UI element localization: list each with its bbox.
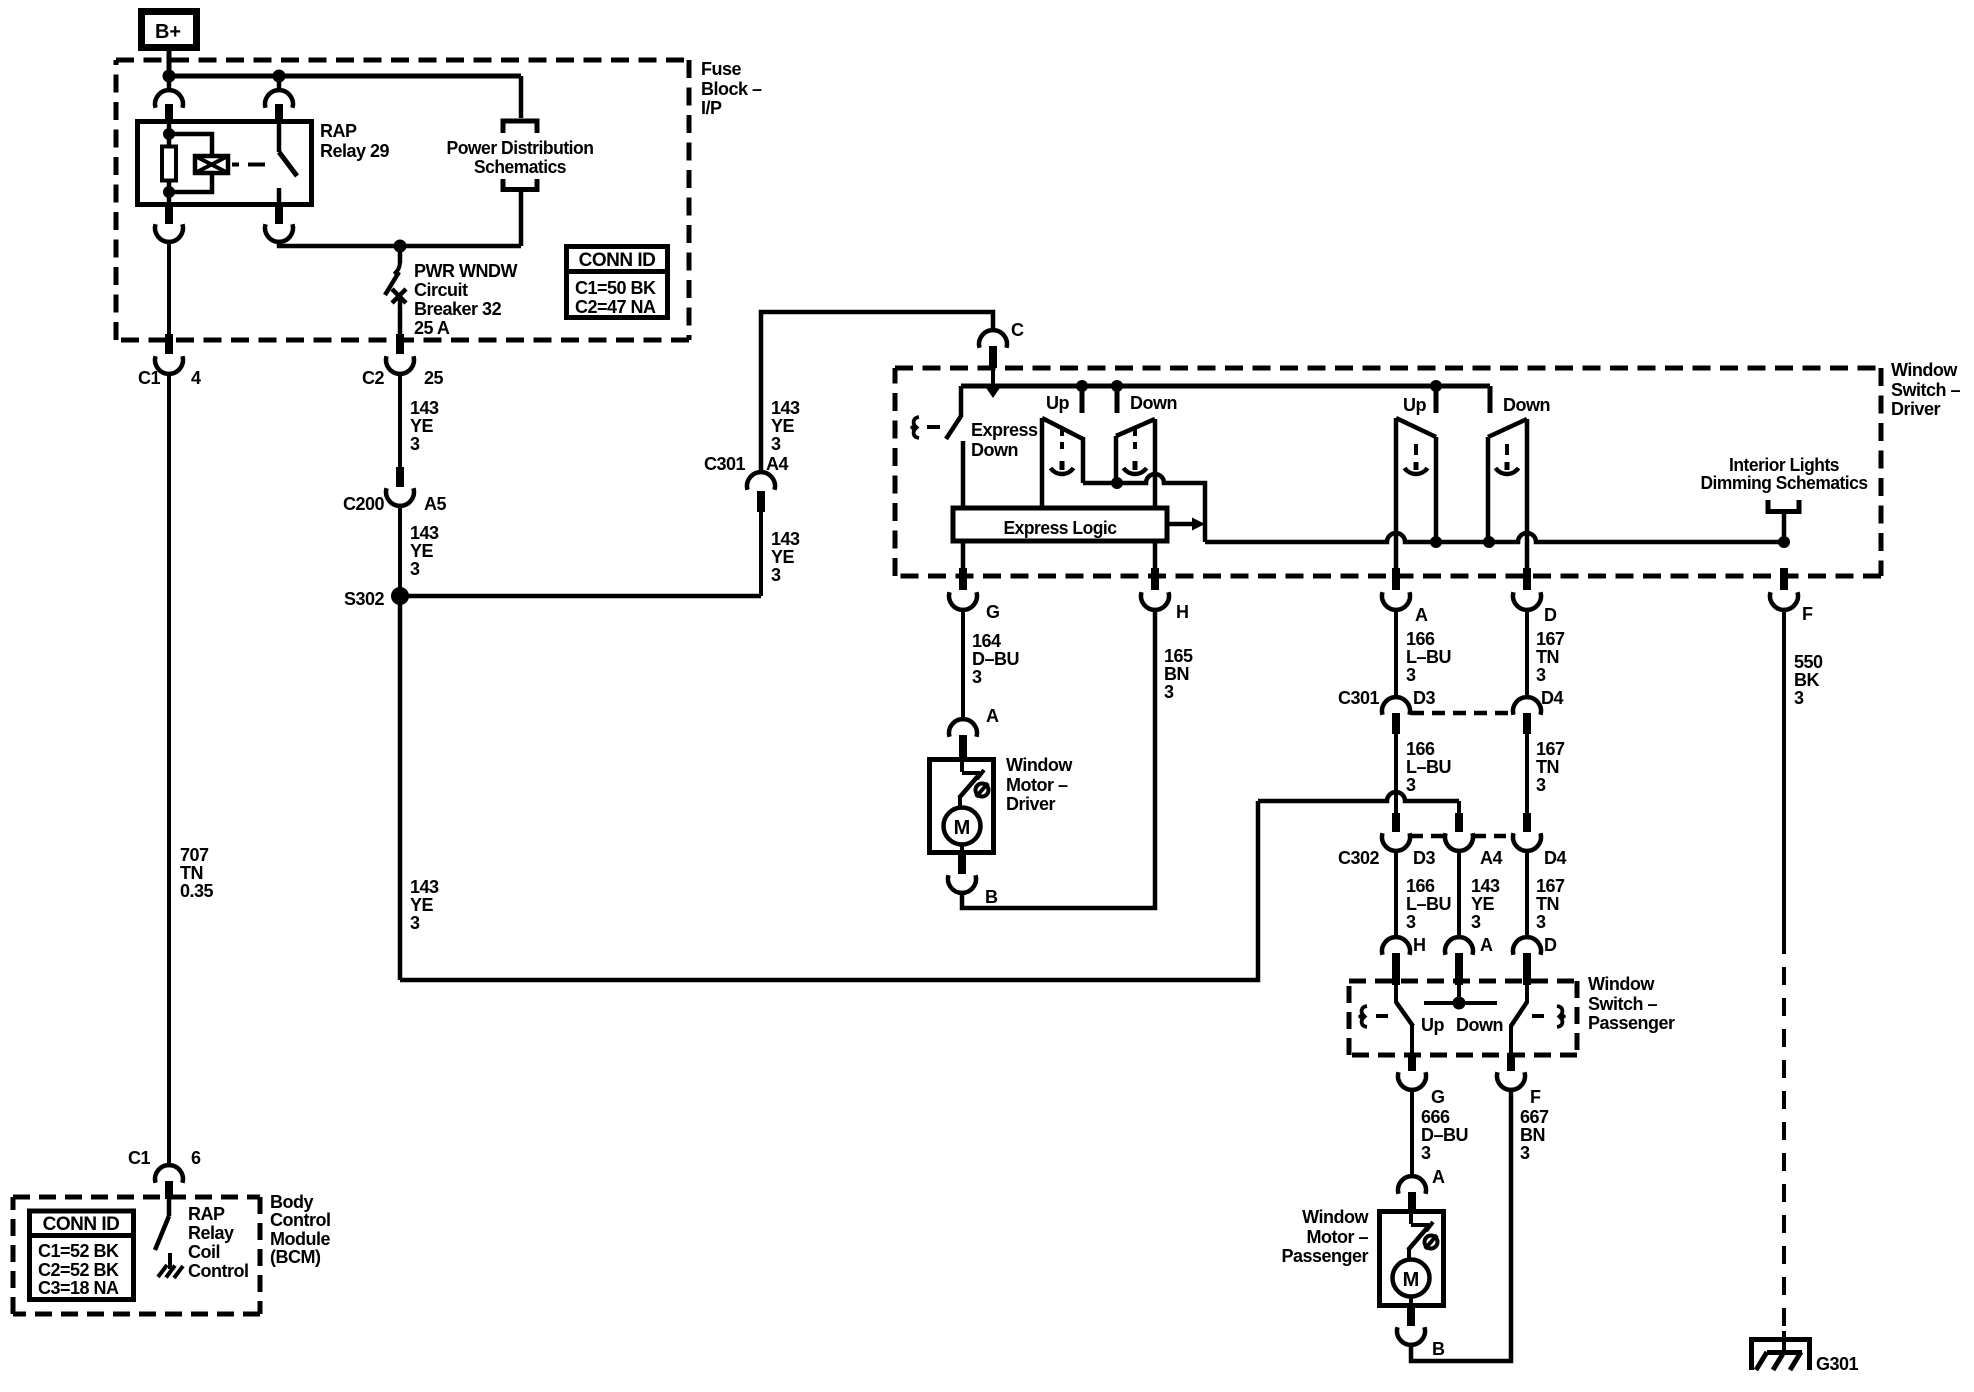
connector B passenger motor: [1397, 1307, 1445, 1359]
svg-text:YE: YE: [1471, 894, 1495, 914]
wire label 143 YE 3: [410, 398, 439, 454]
svg-text:C: C: [1011, 320, 1024, 340]
svg-text:Window: Window: [1006, 755, 1073, 775]
svg-text:YE: YE: [410, 541, 434, 561]
wire label 143 YE 3 below C302: [1471, 876, 1500, 932]
body control module dashed border: [13, 1197, 260, 1314]
svg-text:L–BU: L–BU: [1406, 647, 1451, 667]
svg-text:Control: Control: [270, 1210, 330, 1230]
label RAP Relay 29: [320, 121, 390, 161]
svg-text:YE: YE: [771, 416, 795, 436]
svg-text:143: 143: [410, 877, 439, 897]
svg-text:TN: TN: [1536, 647, 1559, 667]
svg-text:C1: C1: [128, 1148, 150, 1168]
svg-text:A: A: [1432, 1167, 1445, 1187]
relay switch lower contact: [277, 188, 282, 207]
svg-text:YE: YE: [410, 895, 434, 915]
svg-text:C1: C1: [138, 368, 160, 388]
svg-text:D–BU: D–BU: [972, 649, 1019, 669]
svg-text:D: D: [1544, 605, 1557, 625]
wire S302 down to passenger feed: [398, 596, 403, 980]
wire B+ to fuse block bus: [167, 50, 172, 78]
svg-text:Motor –: Motor –: [1307, 1227, 1369, 1247]
svg-text:Block –: Block –: [701, 79, 762, 99]
svg-text:3: 3: [972, 667, 982, 687]
switch passenger-down wiper: [1488, 419, 1527, 568]
resistor inside relay: [162, 147, 176, 181]
wire label 167 TN 3 below C302: [1536, 876, 1565, 932]
svg-text:Passenger: Passenger: [1588, 1013, 1675, 1033]
connector C200 pin A5: [343, 467, 447, 514]
svg-text:A: A: [1480, 935, 1493, 955]
svg-text:3: 3: [771, 565, 781, 585]
switch driver-down actuator glyph: [1124, 429, 1147, 474]
passenger actuator dash right: [1532, 1014, 1544, 1018]
svg-text:Switch –: Switch –: [1891, 380, 1961, 400]
svg-text:Window: Window: [1302, 1207, 1369, 1227]
svg-text:3: 3: [771, 434, 781, 454]
motor M passenger: [1393, 1260, 1430, 1297]
wire motor to box bottom passenger: [1409, 1296, 1413, 1307]
svg-text:C2: C2: [362, 368, 384, 388]
svg-text:Motor –: Motor –: [1006, 775, 1068, 795]
svg-text:Up: Up: [1421, 1015, 1444, 1035]
svg-text:165: 165: [1164, 646, 1193, 666]
connector G driver switch: [949, 543, 1000, 622]
svg-text:550: 550: [1794, 652, 1823, 672]
connector F passenger switch: [1497, 1053, 1541, 1107]
wire into A driver motor: [961, 609, 965, 720]
svg-text:TN: TN: [1536, 894, 1559, 914]
svg-text:C1=52 BK: C1=52 BK: [38, 1241, 119, 1261]
wire label 166 L-BU 3 above C301: [1406, 629, 1451, 685]
passenger switch common bar: [1424, 985, 1497, 1010]
junction at relay coil feed: [163, 70, 176, 83]
svg-text:C301: C301: [704, 454, 746, 474]
svg-text:G: G: [986, 602, 1000, 622]
switch driver-down wiper: [1116, 419, 1155, 568]
svg-text:143: 143: [410, 523, 439, 543]
passenger switch down blade: [1511, 985, 1527, 1053]
express down actuator dash: [927, 425, 940, 429]
svg-text:166: 166: [1406, 629, 1435, 649]
svg-text:G301: G301: [1816, 1354, 1859, 1374]
window motor driver box: [930, 760, 994, 853]
relay coil symbol box with X: [195, 156, 228, 173]
relay switch arm: [277, 121, 282, 152]
connector H driver switch: [1141, 568, 1189, 622]
wire S302 to C301 riser: [400, 594, 761, 599]
wire motor to box bottom: [960, 844, 964, 855]
connector C1 BCM pin 6: [128, 1148, 201, 1199]
svg-text:Down: Down: [1456, 1015, 1503, 1035]
switch passenger-up fixed contact stub: [1434, 386, 1439, 413]
svg-text:(BCM): (BCM): [270, 1247, 321, 1267]
wire express down branch: [959, 386, 964, 417]
wire label 167 TN 3 below C301: [1536, 739, 1565, 795]
wire label 164 D-BU 3: [972, 631, 1019, 687]
switch driver-up wiper: [1042, 418, 1083, 508]
label Power Distribution Schematics: [447, 138, 594, 177]
label RAP Relay Coil Control: [188, 1204, 248, 1281]
switch driver-down fixed contact stub: [1115, 386, 1120, 413]
junction breaker feed: [394, 240, 407, 253]
junction passenger-up wiper output: [1430, 536, 1442, 548]
label Window Switch Passenger: [1588, 974, 1675, 1033]
wire 666 D-BU to passenger motor: [1410, 1089, 1414, 1177]
svg-text:Down: Down: [1503, 395, 1550, 415]
svg-text:3: 3: [1421, 1143, 1431, 1163]
relay coil branch wire: [167, 121, 172, 146]
wire 166 L-BU C301 to C302: [1394, 734, 1398, 813]
express down actuator bracket: [912, 417, 919, 438]
wire express down to logic: [961, 441, 966, 508]
connector A passenger switch: [1445, 935, 1493, 985]
wire 667 BN motor B to F: [1411, 1089, 1511, 1361]
battery feed B+ terminal: [142, 12, 197, 48]
wire bus to relay coil pin: [167, 76, 172, 91]
label Up Down passenger switch: [1421, 1015, 1503, 1035]
wire label 143 YE 3 below C301: [771, 529, 800, 585]
express down switch blade: [946, 416, 961, 439]
svg-text:D4: D4: [1544, 848, 1566, 868]
svg-text:L–BU: L–BU: [1406, 894, 1451, 914]
switch passenger-up actuator glyph: [1405, 444, 1428, 474]
connector pin relay coil top: [155, 90, 183, 121]
wire C pin into switch with arrow: [987, 368, 1000, 398]
svg-text:L–BU: L–BU: [1406, 757, 1451, 777]
svg-text:D: D: [1544, 935, 1557, 955]
label Window Motor Driver: [1006, 755, 1073, 814]
window motor passenger box: [1380, 1212, 1444, 1306]
svg-text:H: H: [1413, 935, 1426, 955]
off-page symbol Power Distribution bottom half: [503, 179, 537, 190]
switch passenger-down fixed contact from bus corner: [1488, 386, 1493, 413]
RAP Relay 29 box: [138, 122, 312, 205]
wire 550 BK to ground solid part: [1782, 609, 1786, 936]
svg-text:I/P: I/P: [701, 98, 722, 118]
express logic output arrow: [1169, 518, 1205, 531]
svg-text:YE: YE: [771, 547, 795, 567]
connector D driver switch: [1513, 568, 1557, 625]
svg-text:Power Distribution: Power Distribution: [447, 138, 594, 158]
svg-text:M: M: [954, 817, 971, 839]
wire 167 TN to C301: [1525, 609, 1529, 698]
wire 143 YE C302 to switch A: [1457, 850, 1461, 938]
svg-text:B: B: [985, 887, 998, 907]
svg-text:Express: Express: [971, 420, 1038, 440]
label Fuse Block I/P: [701, 59, 762, 118]
svg-text:Module: Module: [270, 1229, 330, 1249]
svg-text:A5: A5: [424, 494, 446, 514]
fuse block I/P dashed border: [116, 60, 689, 340]
wire C301 riser to switch C pin: [761, 312, 993, 473]
connector C301 pin A4 riser: [704, 454, 789, 596]
RAP relay coil control switch: [155, 1199, 170, 1269]
connector C302 pin D4: [1513, 813, 1566, 868]
window switch passenger dashed border: [1349, 981, 1577, 1055]
wire 550 BK dashed part: [1782, 936, 1786, 1337]
switch driver-up fixed contact stub: [1080, 386, 1085, 413]
svg-text:143: 143: [771, 398, 800, 418]
wire 165 BN motor B to H: [962, 609, 1155, 908]
circuit breaker 32 symbol: [385, 246, 406, 334]
wire 167 TN C302 to switch D: [1525, 850, 1529, 938]
svg-text:Express Logic: Express Logic: [1004, 518, 1117, 538]
svg-text:666: 666: [1421, 1107, 1450, 1127]
connector C301 pin D4: [1513, 688, 1563, 734]
svg-text:D3: D3: [1413, 848, 1435, 868]
connector H passenger switch: [1382, 935, 1426, 985]
connector A passenger motor: [1398, 1167, 1445, 1210]
wire 143 YE long run to passenger switch: [400, 801, 1258, 980]
CONN ID table BCM: [27, 1211, 136, 1300]
svg-text:Driver: Driver: [1006, 794, 1056, 814]
svg-text:Schematics: Schematics: [474, 157, 566, 177]
express logic box: [953, 508, 1167, 541]
svg-text:F: F: [1530, 1087, 1541, 1107]
switch passenger-up wiper: [1396, 418, 1436, 568]
wire bus to relay switch pin: [277, 76, 282, 91]
wire 166 L-BU C302 to switch H: [1394, 850, 1398, 938]
svg-text:YE: YE: [410, 416, 434, 436]
junction passenger-down wiper output: [1483, 536, 1495, 548]
svg-text:Breaker 32: Breaker 32: [414, 299, 502, 319]
svg-text:Circuit: Circuit: [414, 280, 468, 300]
svg-text:C2=52 BK: C2=52 BK: [38, 1260, 119, 1280]
svg-text:A4: A4: [766, 454, 788, 474]
svg-text:RAP: RAP: [188, 1204, 225, 1224]
svg-text:3: 3: [1536, 775, 1546, 795]
svg-text:6: 6: [191, 1148, 201, 1168]
svg-text:3: 3: [1536, 665, 1546, 685]
svg-text:TN: TN: [1536, 757, 1559, 777]
switch passenger-down actuator glyph: [1496, 444, 1519, 474]
svg-text:3: 3: [1471, 912, 1481, 932]
wire internal B+ bus of driver switch: [961, 384, 1490, 389]
connector pin relay switch top: [265, 90, 293, 121]
svg-text:C200: C200: [343, 494, 385, 514]
svg-text:Relay 29: Relay 29: [320, 141, 390, 161]
wire 166 L-BU to C301: [1394, 609, 1398, 698]
svg-text:3: 3: [410, 913, 420, 933]
svg-text:143: 143: [410, 398, 439, 418]
svg-text:Control: Control: [188, 1261, 248, 1281]
svg-text:3: 3: [1406, 775, 1416, 795]
wire label 707 TN 0.35: [180, 845, 214, 901]
svg-text:3: 3: [410, 434, 420, 454]
junction driver up contact: [1076, 380, 1088, 392]
connector C1 fuse block pin 4: [138, 334, 201, 388]
label Window Switch Driver: [1891, 360, 1961, 419]
connector C301 pin D3: [1338, 688, 1436, 734]
svg-text:M: M: [1403, 1269, 1420, 1291]
svg-text:Interior Lights: Interior Lights: [1729, 455, 1839, 475]
svg-text:Down: Down: [1130, 393, 1177, 413]
wire resistor bottom: [167, 181, 172, 207]
svg-text:3: 3: [1406, 665, 1416, 685]
switch driver-up actuator glyph: [1051, 429, 1074, 474]
passenger actuator dash left: [1376, 1014, 1388, 1018]
junction passenger up contact: [1430, 380, 1442, 392]
svg-text:Up: Up: [1403, 395, 1426, 415]
connector C301 dashed link: [1411, 711, 1511, 716]
wire label 166 L-BU 3 below C301: [1406, 739, 1451, 795]
passenger actuator bracket left: [1360, 1006, 1367, 1027]
svg-text:Relay: Relay: [188, 1223, 234, 1243]
svg-text:C2=47 NA: C2=47 NA: [575, 297, 656, 317]
motor M driver: [944, 808, 981, 845]
wire label 143 YE 3 above C301: [771, 398, 800, 454]
connector G passenger switch: [1398, 1053, 1445, 1107]
svg-text:25 A: 25 A: [414, 318, 450, 338]
svg-text:25: 25: [424, 368, 444, 388]
svg-text:3: 3: [1406, 912, 1416, 932]
connector F driver switch: [1770, 568, 1813, 624]
wire interior lights tap: [1782, 511, 1787, 542]
svg-text:Body: Body: [270, 1192, 313, 1212]
svg-text:167: 167: [1536, 876, 1565, 896]
wire label 167 TN 3 above C301: [1536, 629, 1565, 685]
off-page symbol Power Distribution top half: [503, 121, 537, 133]
ground symbol BCM internal: [158, 1265, 183, 1278]
connector pin relay switch bottom: [265, 207, 293, 242]
svg-text:3: 3: [1794, 688, 1804, 708]
svg-text:RAP: RAP: [320, 121, 357, 141]
connector D passenger switch: [1513, 935, 1557, 985]
svg-text:Coil: Coil: [188, 1242, 220, 1262]
junction driver-down wiper to output: [1111, 477, 1123, 489]
CONN ID table fuse block: [564, 247, 670, 318]
svg-text:Switch –: Switch –: [1588, 994, 1658, 1014]
svg-text:143: 143: [1471, 876, 1500, 896]
wire 167 TN C301 to C302: [1525, 734, 1529, 813]
wire label 143 YE 3: [410, 877, 439, 933]
junction driver down contact: [1111, 380, 1123, 392]
svg-text:Window: Window: [1891, 360, 1958, 380]
svg-text:3: 3: [1164, 682, 1174, 702]
svg-text:TN: TN: [180, 863, 203, 883]
svg-text:Fuse: Fuse: [701, 59, 742, 79]
wire 143 YE C200 to S302: [398, 505, 402, 596]
wire power distribution drop: [519, 76, 524, 118]
wire driver switch output bus with hop: [1083, 474, 1205, 542]
svg-text:CONN ID: CONN ID: [579, 250, 656, 271]
passenger motor internal breaker: [1408, 1214, 1438, 1260]
junction interior lights tap: [1778, 536, 1790, 548]
wire label 550 BK 3: [1794, 652, 1823, 708]
svg-text:A: A: [1415, 605, 1428, 625]
svg-text:3: 3: [410, 559, 420, 579]
ground G301: [1752, 1331, 1859, 1374]
svg-text:PWR WNDW: PWR WNDW: [414, 261, 517, 281]
passenger switch up blade: [1396, 985, 1413, 1053]
svg-text:C301: C301: [1338, 688, 1380, 708]
wire relay switch output to breaker node: [279, 241, 521, 246]
svg-text:CONN ID: CONN ID: [43, 1214, 120, 1235]
svg-text:D3: D3: [1413, 688, 1435, 708]
connector pin relay coil bottom: [155, 207, 183, 242]
connector A driver motor: [949, 706, 999, 757]
svg-text:BN: BN: [1520, 1125, 1545, 1145]
junction relay coil bottom: [163, 186, 175, 198]
wire label 165 BN 3: [1164, 646, 1193, 702]
svg-text:B: B: [1432, 1339, 1445, 1359]
svg-text:Down: Down: [971, 440, 1018, 460]
off-page symbol interior lights: [1768, 500, 1799, 512]
label Window Motor Passenger: [1281, 1207, 1369, 1266]
wire 143 YE breaker to C200: [398, 373, 402, 467]
svg-text:D4: D4: [1541, 688, 1563, 708]
junction relay coil top: [163, 128, 175, 140]
connector C302 pin D3: [1338, 813, 1436, 868]
wire coil parallel branch top: [169, 134, 212, 156]
svg-text:A4: A4: [1480, 848, 1502, 868]
svg-text:G: G: [1431, 1087, 1445, 1107]
connector A driver switch: [1382, 568, 1428, 625]
label Body Control Module BCM: [270, 1192, 330, 1267]
svg-text:C1=50 BK: C1=50 BK: [575, 278, 656, 298]
svg-text:166: 166: [1406, 876, 1435, 896]
window switch driver dashed border: [895, 368, 1881, 576]
passenger actuator bracket right: [1557, 1006, 1564, 1027]
wire B+ bus inside fuse block: [169, 74, 521, 79]
svg-text:D–BU: D–BU: [1421, 1125, 1468, 1145]
junction at relay switch feed: [273, 70, 286, 83]
svg-text:BK: BK: [1794, 670, 1819, 690]
svg-text:164: 164: [972, 631, 1001, 651]
wire label 166 L-BU 3 below C302: [1406, 876, 1451, 932]
wire label 143 YE 3: [410, 523, 439, 579]
relay actuator dashed link: [232, 163, 265, 167]
svg-text:667: 667: [1520, 1107, 1549, 1127]
svg-text:167: 167: [1536, 629, 1565, 649]
wire coil parallel branch bottom: [169, 173, 212, 192]
svg-text:BN: BN: [1164, 664, 1189, 684]
label Interior Lights Dimming Schematics: [1701, 455, 1868, 493]
svg-text:Driver: Driver: [1891, 399, 1941, 419]
svg-text:Window: Window: [1588, 974, 1655, 994]
wire label 666 D-BU 3: [1421, 1107, 1468, 1163]
svg-text:3: 3: [1520, 1143, 1530, 1163]
svg-text:Up: Up: [1046, 393, 1069, 413]
svg-text:166: 166: [1406, 739, 1435, 759]
svg-text:143: 143: [771, 529, 800, 549]
svg-text:C3=18 NA: C3=18 NA: [38, 1278, 119, 1298]
svg-text:167: 167: [1536, 739, 1565, 759]
svg-text:3: 3: [1536, 912, 1546, 932]
svg-text:S302: S302: [344, 589, 385, 609]
connector C2 fuse block pin 25: [362, 334, 444, 388]
connector C window switch driver: [979, 320, 1024, 368]
wire output bus to F junction with hops: [1205, 533, 1784, 542]
svg-text:F: F: [1802, 604, 1813, 624]
connector B driver motor: [948, 855, 998, 907]
svg-text:B+: B+: [155, 21, 181, 43]
svg-text:Passenger: Passenger: [1281, 1246, 1368, 1266]
label Express Down: [971, 420, 1038, 460]
label PWR WNDW Circuit Breaker 32 25 A: [414, 261, 517, 338]
svg-text:Dimming Schematics: Dimming Schematics: [1701, 473, 1868, 493]
driver motor internal breaker: [959, 762, 989, 808]
connector C302 pin A4: [1445, 801, 1502, 868]
wire relay coil to BCM C1: [167, 241, 171, 334]
wire label 667 BN 3: [1520, 1107, 1549, 1163]
splice S302: [344, 587, 409, 609]
svg-text:A: A: [986, 706, 999, 726]
wire 143 YE horizontal with hop over 166 wire: [1258, 792, 1459, 801]
svg-text:0.35: 0.35: [180, 881, 214, 901]
